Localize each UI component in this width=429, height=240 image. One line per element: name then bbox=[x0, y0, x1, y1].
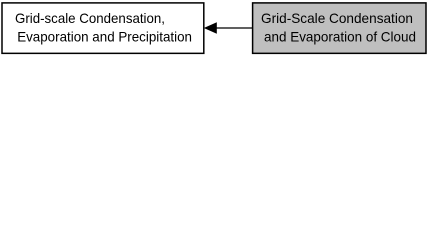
svg-text:Grid-scale Condensation,: Grid-scale Condensation, bbox=[15, 11, 165, 26]
svg-text:and Evaporation of Cloud: and Evaporation of Cloud bbox=[264, 30, 416, 45]
svg-text:Grid-Scale Condensation: Grid-Scale Condensation bbox=[261, 11, 413, 26]
svg-text:Evaporation and Precipitation: Evaporation and Precipitation bbox=[17, 30, 192, 45]
